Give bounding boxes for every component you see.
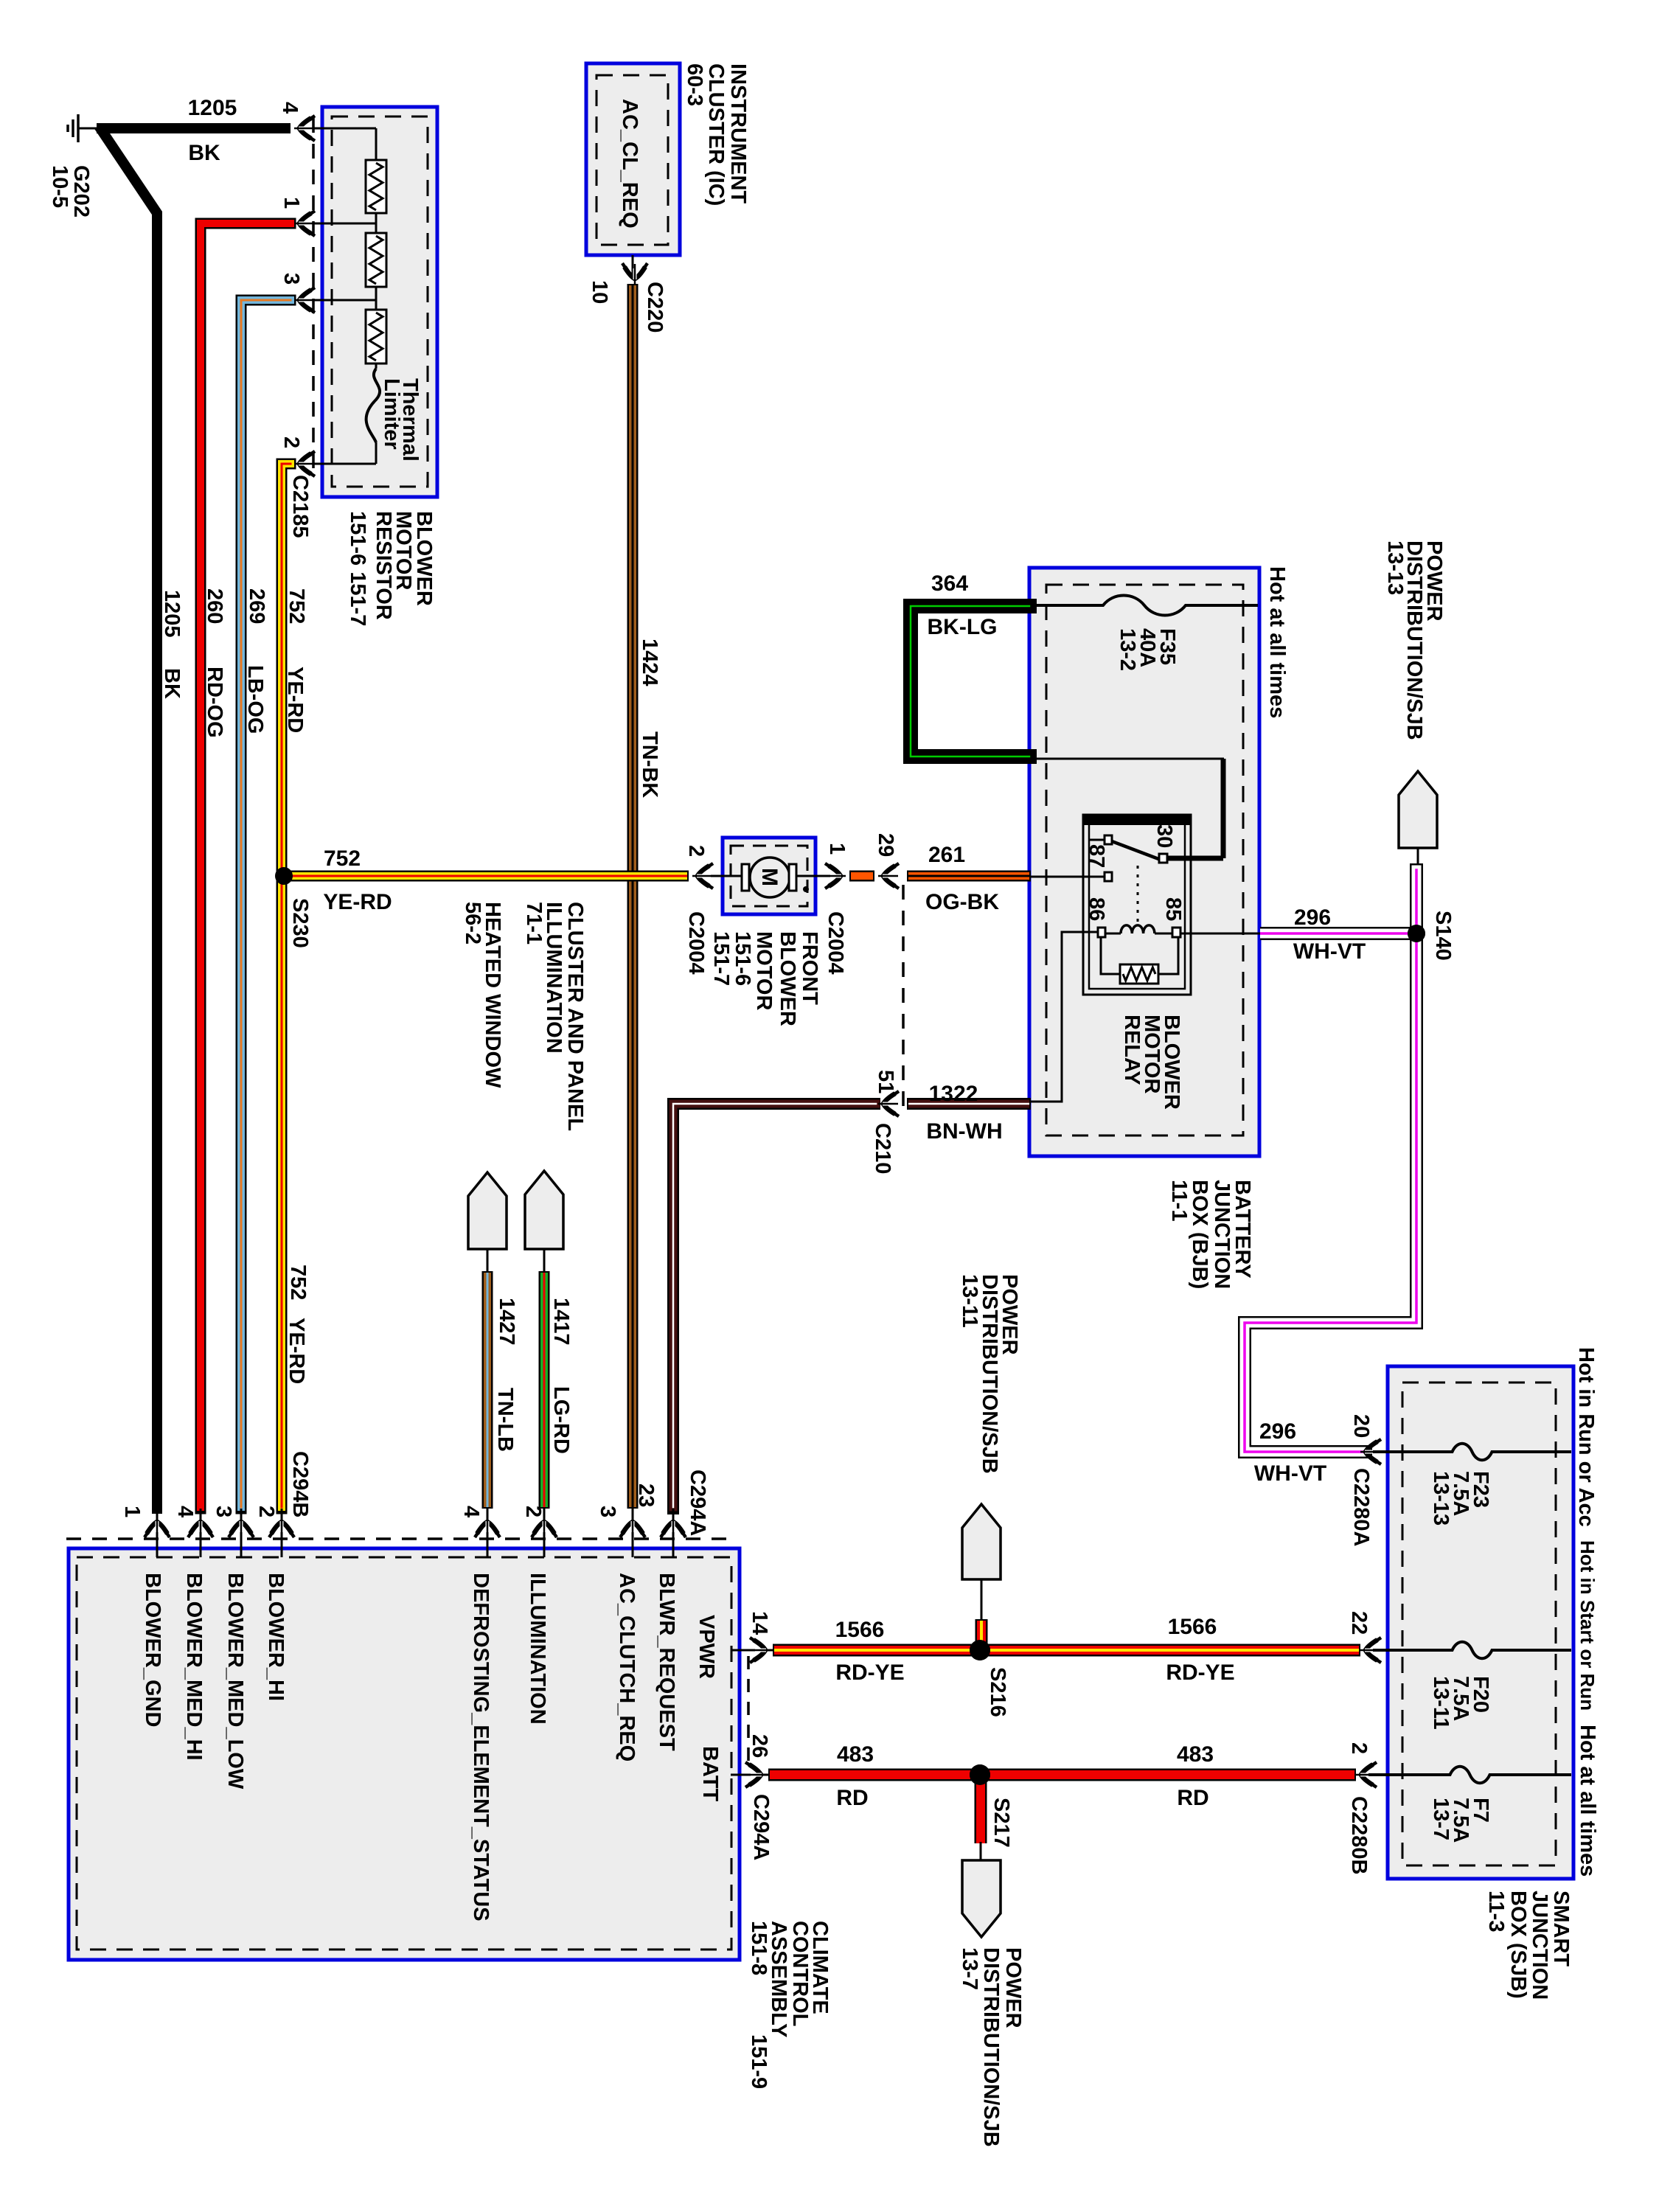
svg-text:4: 4 bbox=[173, 1506, 197, 1517]
wire 752 YE-RD vertical bbox=[282, 464, 291, 1509]
pin 1 arrow bbox=[294, 211, 315, 236]
label VPWR bbox=[695, 1615, 718, 1679]
svg-text:1205: 1205 bbox=[188, 96, 237, 120]
power distribution 13-13 label bbox=[1383, 540, 1446, 740]
svg-text:2: 2 bbox=[1347, 1742, 1371, 1754]
wire 1417 LG-RD bbox=[539, 1271, 550, 1509]
label 261 bbox=[928, 843, 965, 867]
svg-text:RD-OG: RD-OG bbox=[203, 667, 226, 738]
resistor R1 bbox=[366, 160, 386, 213]
label BK bbox=[188, 141, 220, 165]
svg-text:S140: S140 bbox=[1431, 911, 1455, 961]
svg-text:BLWR_REQUEST: BLWR_REQUEST bbox=[655, 1573, 678, 1751]
svg-text:YE-RD: YE-RD bbox=[323, 890, 392, 914]
blower motor resistor box bbox=[322, 107, 437, 497]
heated window label bbox=[461, 902, 504, 1088]
climate control assembly box bbox=[69, 1548, 740, 1960]
label 1205 BK wire-left bbox=[160, 590, 184, 699]
connector C2004 dashed line bbox=[902, 885, 905, 1110]
svg-text:CLUSTER AND PANEL: CLUSTER AND PANEL bbox=[563, 902, 587, 1131]
svg-text:MOTOR: MOTOR bbox=[752, 931, 776, 1010]
wire 260 RD-OG bbox=[201, 223, 291, 1509]
connector C294A dashed vertical bbox=[747, 1656, 750, 1770]
wire 1427 TN-LB bbox=[482, 1271, 493, 1509]
fuse F20 bbox=[1373, 1642, 1571, 1659]
S217 pentagon bbox=[962, 1860, 1001, 1937]
pin 1 label bbox=[279, 197, 303, 209]
power distribution 13-7 label bbox=[958, 1947, 1025, 2147]
label S217 bbox=[990, 1798, 1013, 1848]
splice S217 bbox=[970, 1764, 990, 1785]
svg-text:269: 269 bbox=[245, 588, 268, 624]
svg-text:151-7: 151-7 bbox=[709, 931, 733, 986]
pin 2 arrow bbox=[294, 451, 315, 476]
svg-text:56-2: 56-2 bbox=[461, 902, 484, 945]
relay pin87 contact bbox=[1105, 872, 1112, 881]
label 269 LB-OG bbox=[243, 588, 268, 734]
svg-text:10-5: 10-5 bbox=[48, 165, 72, 208]
S216 stem bbox=[981, 1579, 983, 1621]
svg-text:Hot in Run or Acc: Hot in Run or Acc bbox=[1574, 1347, 1598, 1527]
svg-text:TN-BK: TN-BK bbox=[638, 731, 661, 798]
pin20 arrow bbox=[1360, 1439, 1381, 1464]
svg-text:13-11: 13-11 bbox=[958, 1274, 981, 1328]
svg-text:483: 483 bbox=[1177, 1742, 1214, 1767]
wire 1322 BN-WH left segment bbox=[673, 1104, 876, 1509]
label RD left bbox=[836, 1786, 868, 1810]
pin 3 label bbox=[279, 273, 303, 285]
label 20 bbox=[1349, 1414, 1373, 1438]
label Hot in Start or Run bbox=[1576, 1540, 1599, 1711]
svg-text:WH-VT: WH-VT bbox=[1254, 1461, 1326, 1486]
svg-text:C2004: C2004 bbox=[684, 911, 708, 974]
svg-text:2: 2 bbox=[254, 1506, 278, 1517]
svg-text:AC_CLUTCH_REQ: AC_CLUTCH_REQ bbox=[615, 1573, 639, 1761]
label C294A right bbox=[749, 1794, 773, 1860]
svg-text:1322: 1322 bbox=[929, 1082, 978, 1106]
motor dot bbox=[803, 886, 809, 892]
pentagon stem LG-RD bbox=[543, 1249, 546, 1273]
wire 269 LB-OG bbox=[241, 300, 291, 1509]
svg-text:BOX (SJB): BOX (SJB) bbox=[1506, 1891, 1530, 1999]
pin2 arrow SJB bbox=[1356, 1762, 1377, 1787]
svg-text:BATT: BATT bbox=[698, 1746, 722, 1801]
label RD right bbox=[1177, 1786, 1208, 1810]
label 1424 TN-BK bbox=[638, 639, 661, 798]
svg-text:13-7: 13-7 bbox=[1429, 1798, 1453, 1840]
label 86 bbox=[1085, 897, 1108, 921]
relay pin86 wire to BN-WH bbox=[1031, 932, 1098, 1102]
svg-text:DISTRIBUTION/SJB: DISTRIBUTION/SJB bbox=[979, 1947, 1003, 2147]
svg-text:BLOWER: BLOWER bbox=[776, 931, 799, 1026]
svg-text:C294A: C294A bbox=[686, 1470, 709, 1536]
svg-text:LB-OG: LB-OG bbox=[243, 665, 267, 734]
svg-text:26: 26 bbox=[748, 1734, 771, 1758]
relay label bbox=[1120, 1015, 1183, 1110]
motor feed line bbox=[711, 875, 841, 877]
pentagon stem TN-LB bbox=[487, 1249, 489, 1273]
fuse F7 bbox=[1368, 1767, 1571, 1784]
ground G202 bbox=[68, 114, 98, 142]
svg-text:C2185: C2185 bbox=[288, 475, 312, 538]
svg-text:RD-YE: RD-YE bbox=[835, 1660, 904, 1685]
svg-text:LG-RD: LG-RD bbox=[549, 1386, 573, 1454]
svg-text:WH-VT: WH-VT bbox=[1293, 939, 1366, 964]
S140 pentagon stem bbox=[1417, 848, 1419, 872]
svg-text:3: 3 bbox=[212, 1506, 235, 1517]
relay pin85 line out bbox=[1180, 933, 1260, 935]
relay pin86 contact bbox=[1098, 928, 1105, 937]
svg-text:G202: G202 bbox=[69, 165, 93, 218]
wire R3 to thermal limiter bbox=[375, 364, 378, 369]
label S140 bbox=[1431, 911, 1455, 961]
svg-text:3: 3 bbox=[279, 273, 303, 285]
svg-text:1: 1 bbox=[825, 843, 849, 855]
label RD-YE right bbox=[1166, 1660, 1234, 1685]
pin22 arrow bbox=[1360, 1638, 1381, 1663]
svg-text:BLOWER_GND: BLOWER_GND bbox=[141, 1573, 164, 1727]
svg-text:BK-LG: BK-LG bbox=[928, 615, 998, 639]
S217 stem bbox=[980, 1842, 982, 1862]
svg-text:85: 85 bbox=[1161, 897, 1185, 921]
label G202 10-5 bbox=[48, 165, 93, 218]
fuse F20 label bbox=[1429, 1676, 1492, 1730]
svg-text:752: 752 bbox=[324, 846, 361, 871]
svg-text:1566: 1566 bbox=[1168, 1615, 1217, 1639]
S217 stub RD bbox=[975, 1779, 987, 1843]
svg-text:SMART: SMART bbox=[1549, 1891, 1573, 1966]
pin 4 arrow bbox=[294, 116, 315, 141]
svg-text:11-1: 11-1 bbox=[1167, 1180, 1191, 1221]
svg-text:INSTRUMENT: INSTRUMENT bbox=[726, 63, 750, 204]
SJB label bbox=[1484, 1891, 1573, 2000]
svg-text:30: 30 bbox=[1152, 824, 1176, 848]
blower motor relay box bbox=[1083, 815, 1191, 995]
label C2004 right bbox=[824, 911, 847, 974]
resistor R3 bbox=[366, 310, 386, 364]
svg-text:CLUSTER (IC): CLUSTER (IC) bbox=[704, 63, 728, 206]
label 87 bbox=[1085, 844, 1108, 868]
svg-text:1427: 1427 bbox=[495, 1298, 518, 1346]
svg-text:13-11: 13-11 bbox=[1429, 1676, 1453, 1730]
relay pivot stub bbox=[1089, 839, 1105, 841]
relay pin87 line bbox=[1031, 876, 1105, 878]
svg-text:C210: C210 bbox=[871, 1123, 894, 1174]
label 1566 right bbox=[1168, 1615, 1217, 1639]
motor pin1 label bbox=[825, 843, 849, 855]
fuse F23 label bbox=[1429, 1471, 1492, 1526]
svg-text:Limiter: Limiter bbox=[380, 378, 403, 450]
wire 261 OG-BK bbox=[907, 871, 1031, 882]
climate pin names bbox=[141, 1573, 678, 1921]
motor pin2 arrow bbox=[692, 863, 713, 888]
splice S216 overlay bbox=[970, 1640, 990, 1660]
pin 4 label bbox=[278, 102, 302, 114]
power distribution 13-11 label bbox=[958, 1274, 1021, 1474]
label C210 bbox=[871, 1123, 894, 1174]
front blower motor box bbox=[723, 838, 815, 914]
svg-text:TN-LB: TN-LB bbox=[493, 1388, 517, 1452]
svg-text:RD: RD bbox=[836, 1786, 868, 1810]
svg-text:2: 2 bbox=[521, 1506, 545, 1517]
svg-text:C2280B: C2280B bbox=[1347, 1796, 1371, 1874]
svg-text:C2280A: C2280A bbox=[1349, 1468, 1373, 1546]
splice S140 bbox=[1408, 925, 1425, 942]
label 1566 left bbox=[835, 1618, 885, 1642]
pin 3 arrow bbox=[294, 288, 315, 313]
wire R1-R2 junction pin1 bbox=[313, 213, 376, 233]
svg-text:POWER: POWER bbox=[1001, 1947, 1025, 2028]
label 296 bbox=[1294, 905, 1331, 930]
C220 arrow bbox=[622, 263, 647, 284]
svg-text:JUNCTION: JUNCTION bbox=[1210, 1180, 1234, 1289]
label C294A left bbox=[686, 1470, 709, 1536]
svg-text:S216: S216 bbox=[986, 1667, 1009, 1717]
svg-text:20: 20 bbox=[1349, 1414, 1373, 1438]
label BATT bbox=[698, 1746, 722, 1801]
label 14 bbox=[748, 1611, 771, 1635]
label C220 bbox=[643, 282, 667, 333]
svg-text:86: 86 bbox=[1085, 897, 1108, 921]
label Hot at all times SJB bbox=[1576, 1725, 1599, 1877]
connector C2185 dashed line bbox=[312, 118, 315, 473]
splice S216 bbox=[970, 1640, 990, 1660]
relay pin85 contact bbox=[1172, 928, 1180, 937]
svg-text:364: 364 bbox=[931, 571, 968, 596]
relay pivot contact bbox=[1105, 835, 1112, 844]
pin 2 label bbox=[279, 437, 303, 448]
wire 1424 TN-BK bbox=[627, 284, 639, 1509]
motor box label bbox=[709, 931, 821, 1026]
relay parallel resistor loop bbox=[1101, 937, 1178, 974]
svg-text:C2004: C2004 bbox=[824, 911, 847, 974]
svg-text:1: 1 bbox=[279, 197, 303, 209]
svg-text:C294B: C294B bbox=[288, 1451, 312, 1517]
climate box label bbox=[747, 1921, 832, 2089]
svg-text:14: 14 bbox=[748, 1611, 771, 1635]
svg-text:2: 2 bbox=[684, 845, 708, 857]
wire 1322 BN-WH right segment bbox=[907, 1098, 1031, 1110]
svg-text:4: 4 bbox=[278, 102, 302, 114]
relay actuation dotted line bbox=[1137, 866, 1139, 925]
relay pin30 contact bbox=[1159, 854, 1167, 863]
label Hot in Run or Acc bbox=[1574, 1347, 1598, 1527]
relay blade bbox=[1112, 841, 1161, 860]
svg-text:71-1: 71-1 bbox=[522, 902, 546, 945]
wire WH-VT vertical+route to SJB bbox=[1245, 870, 1416, 1452]
relay coil bbox=[1105, 925, 1172, 933]
label 1322 bbox=[929, 1082, 978, 1106]
label 752 YE-RD lower bbox=[285, 1265, 310, 1384]
svg-text:2: 2 bbox=[279, 437, 303, 448]
cluster and panel illumination label bbox=[522, 902, 587, 1131]
thermal limiter bbox=[366, 369, 380, 442]
svg-text:4: 4 bbox=[459, 1506, 483, 1517]
label 364 bbox=[931, 571, 968, 596]
heated window pentagon bbox=[468, 1172, 507, 1249]
svg-text:261: 261 bbox=[928, 843, 965, 867]
splice S140 dot overlay bbox=[1408, 925, 1425, 942]
svg-text:483: 483 bbox=[837, 1742, 874, 1767]
svg-text:11-3: 11-3 bbox=[1484, 1891, 1508, 1932]
motor pin2 label bbox=[684, 845, 708, 857]
svg-text:S230: S230 bbox=[288, 898, 312, 948]
svg-text:VPWR: VPWR bbox=[695, 1615, 718, 1679]
svg-text:752: 752 bbox=[285, 588, 308, 624]
svg-text:M: M bbox=[757, 868, 782, 886]
motor pin1 arrow bbox=[825, 863, 846, 888]
label C2004 left bbox=[684, 911, 708, 974]
svg-text:JUNCTION: JUNCTION bbox=[1528, 1891, 1551, 2000]
label C2185 bbox=[288, 475, 312, 538]
svg-text:ILLUMINATION: ILLUMINATION bbox=[526, 1573, 549, 1725]
wire pin4 to resistor chain bbox=[313, 128, 376, 160]
wire 752 YE-RD horizontal bbox=[282, 871, 689, 882]
svg-text:10: 10 bbox=[588, 280, 611, 304]
label 2 SJB bbox=[1347, 1742, 1371, 1754]
svg-text:BLOWER_MED_LOW: BLOWER_MED_LOW bbox=[223, 1573, 247, 1790]
svg-text:BN-WH: BN-WH bbox=[926, 1119, 1002, 1144]
svg-text:296: 296 bbox=[1259, 1419, 1296, 1444]
svg-text:CONTROL: CONTROL bbox=[788, 1921, 812, 2026]
label 1417 LG-RD bbox=[549, 1298, 573, 1454]
svg-text:13-7: 13-7 bbox=[958, 1947, 981, 1990]
wire 1205 BK diagonal+vertical to climate pin 1 bbox=[102, 131, 157, 1509]
svg-text:1205: 1205 bbox=[160, 590, 184, 638]
fuse F7 label bbox=[1429, 1798, 1492, 1843]
label S216 bbox=[986, 1667, 1009, 1717]
wire limiter to pin2 bbox=[313, 442, 376, 464]
label 26 bbox=[748, 1734, 771, 1758]
svg-text:C220: C220 bbox=[643, 282, 667, 333]
label BN-WH bbox=[926, 1119, 1002, 1144]
svg-text:13-13: 13-13 bbox=[1429, 1471, 1453, 1526]
svg-text:151-9: 151-9 bbox=[747, 2034, 771, 2089]
illumination pentagon bbox=[525, 1171, 563, 1249]
S216 pentagon bbox=[962, 1504, 1001, 1579]
svg-text:BK: BK bbox=[188, 141, 220, 165]
IC pin stem bbox=[632, 255, 634, 274]
climate pin26 stub bbox=[731, 1774, 768, 1776]
label C2280B bbox=[1347, 1796, 1371, 1874]
pin14 arrow bbox=[750, 1638, 771, 1663]
climate pin arrows bbox=[145, 1517, 686, 1537]
svg-text:YE-RD: YE-RD bbox=[283, 667, 307, 733]
instrument cluster (IC) box bbox=[586, 63, 680, 255]
svg-text:151-6 151-7: 151-6 151-7 bbox=[346, 511, 369, 626]
svg-text:DEFROSTING_ELEMENT_STATUS: DEFROSTING_ELEMENT_STATUS bbox=[469, 1573, 493, 1921]
svg-text:22: 22 bbox=[1347, 1611, 1371, 1635]
label C294B bbox=[288, 1451, 312, 1517]
motor brushes bbox=[742, 864, 796, 891]
label S230 bbox=[288, 898, 312, 948]
splice S217 overlay bbox=[970, 1764, 990, 1785]
svg-text:C294A: C294A bbox=[749, 1794, 773, 1860]
wire 483 RD bbox=[768, 1769, 1356, 1781]
pin29 arrow bbox=[878, 863, 899, 888]
svg-text:BK: BK bbox=[160, 668, 184, 699]
label 85 bbox=[1161, 897, 1185, 921]
svg-text:23: 23 bbox=[634, 1484, 658, 1507]
label 22 bbox=[1347, 1611, 1371, 1635]
label WH-VT bbox=[1293, 939, 1366, 964]
label 51 bbox=[874, 1070, 897, 1093]
label 752 horizontal bbox=[324, 846, 361, 871]
svg-text:YE-RD: YE-RD bbox=[285, 1318, 308, 1384]
svg-text:1: 1 bbox=[120, 1506, 144, 1517]
svg-text:87: 87 bbox=[1085, 844, 1108, 868]
label BK-LG bbox=[928, 615, 998, 639]
resistor R2 bbox=[366, 233, 386, 287]
wire 261 stub bbox=[849, 871, 874, 882]
S140 connector pentagon bbox=[1399, 771, 1437, 848]
pin51 arrow bbox=[878, 1091, 899, 1116]
label C2280A bbox=[1349, 1468, 1373, 1546]
svg-text:296: 296 bbox=[1294, 905, 1331, 930]
label 483 left bbox=[837, 1742, 874, 1767]
svg-text:RESISTOR: RESISTOR bbox=[372, 511, 395, 620]
wire 296 WH-VT horizontal bbox=[1260, 927, 1413, 940]
S216 stub RD-YE bbox=[975, 1619, 988, 1645]
svg-text:Hot at all times: Hot at all times bbox=[1265, 566, 1289, 718]
svg-text:29: 29 bbox=[874, 833, 897, 857]
svg-text:260: 260 bbox=[203, 588, 226, 624]
climate pin numbers bbox=[120, 1484, 658, 1517]
label 1427 TN-LB bbox=[493, 1298, 518, 1452]
svg-text:RD: RD bbox=[1177, 1786, 1208, 1810]
wire 1566 RD-YE bbox=[773, 1644, 1360, 1657]
svg-text:OG-BK: OG-BK bbox=[925, 890, 999, 914]
label Hot at all times BJB bbox=[1265, 566, 1289, 718]
resistor box label bbox=[346, 511, 436, 626]
splice S230 bbox=[275, 867, 293, 885]
thermal limiter label bbox=[380, 378, 422, 462]
label WH-VT lower bbox=[1254, 1461, 1326, 1486]
svg-text:60-3: 60-3 bbox=[683, 63, 706, 106]
BJB label bbox=[1167, 1180, 1254, 1289]
fuse F23 bbox=[1373, 1444, 1571, 1461]
svg-text:1424: 1424 bbox=[638, 639, 661, 686]
motor circle M bbox=[750, 858, 790, 897]
svg-text:13-13: 13-13 bbox=[1383, 540, 1407, 595]
climate pin stubs bbox=[157, 1509, 673, 1557]
svg-text:RD-YE: RD-YE bbox=[1166, 1660, 1234, 1685]
label 10 bbox=[588, 280, 611, 304]
svg-text:752: 752 bbox=[286, 1265, 310, 1300]
svg-text:151-8: 151-8 bbox=[747, 1921, 771, 1975]
wire 364 BK-LG bbox=[911, 606, 1029, 757]
svg-text:151-6: 151-6 bbox=[731, 931, 754, 986]
svg-text:Hot at all times: Hot at all times bbox=[1576, 1725, 1599, 1877]
wire 1205 BK horizontal to resistor pin 4 bbox=[97, 123, 291, 133]
battery junction box (BJB) bbox=[1029, 568, 1259, 1156]
svg-text:BLOWER_HI: BLOWER_HI bbox=[264, 1573, 288, 1701]
svg-text:BLOWER_MED_HI: BLOWER_MED_HI bbox=[182, 1573, 206, 1761]
label AC_CL_REQ bbox=[618, 99, 641, 229]
pin26 arrow bbox=[745, 1762, 766, 1787]
svg-text:51: 51 bbox=[874, 1070, 897, 1093]
label 483 right bbox=[1177, 1742, 1214, 1767]
smart junction box (SJB) bbox=[1388, 1366, 1573, 1879]
svg-text:3: 3 bbox=[596, 1506, 619, 1517]
label 29 bbox=[874, 833, 897, 857]
label RD-YE left bbox=[835, 1660, 904, 1685]
svg-text:13-2: 13-2 bbox=[1116, 628, 1139, 671]
climate pin14 stub bbox=[731, 1649, 773, 1652]
label 30 bbox=[1152, 824, 1176, 848]
svg-text:1417: 1417 bbox=[549, 1298, 573, 1346]
connector dashed line C294 bbox=[66, 1537, 737, 1540]
